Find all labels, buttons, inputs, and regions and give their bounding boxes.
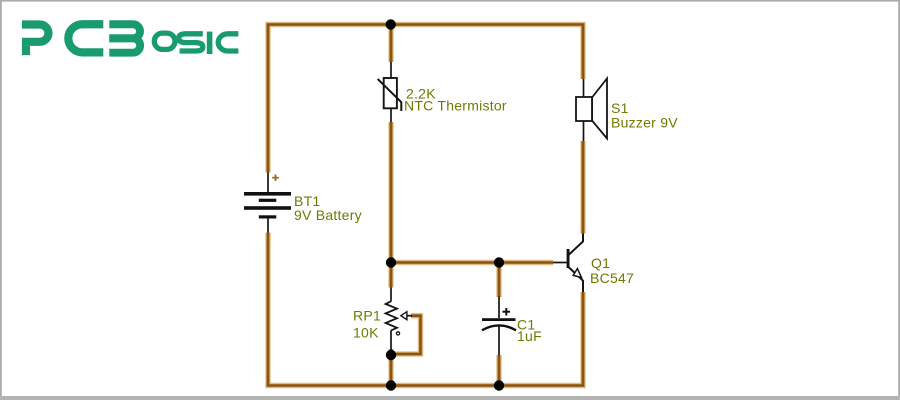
svg-text:1uF: 1uF bbox=[517, 328, 542, 344]
svg-text:BC547: BC547 bbox=[590, 270, 634, 286]
svg-text:NTC Thermistor: NTC Thermistor bbox=[404, 98, 507, 114]
svg-text:Buzzer 9V: Buzzer 9V bbox=[611, 115, 678, 131]
svg-text:10K: 10K bbox=[353, 325, 379, 341]
svg-text:RP1: RP1 bbox=[353, 307, 381, 323]
svg-text:Q1: Q1 bbox=[591, 255, 610, 271]
svg-text:S1: S1 bbox=[611, 100, 629, 116]
svg-text:9V Battery: 9V Battery bbox=[294, 207, 362, 223]
